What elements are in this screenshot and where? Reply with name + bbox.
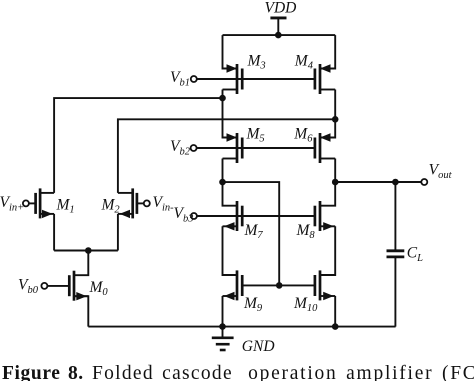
- transistor M8: [315, 201, 335, 231]
- svg-text:M9: M9: [243, 295, 263, 314]
- node CL junction: [392, 179, 399, 186]
- wire M5 drain to M7 drain: [223, 159, 238, 206]
- svg-text:M4: M4: [294, 53, 314, 72]
- wire M0 source to ground rail: [74, 296, 88, 326]
- svg-text:M5: M5: [246, 126, 265, 145]
- wire ground rail: [88, 326, 395, 328]
- wire Vb1 to M3 M4 gates: [197, 78, 315, 80]
- svg-text:Vb3: Vb3: [174, 205, 194, 225]
- transistor M2: [118, 188, 137, 218]
- svg-text:M10: M10: [293, 295, 318, 314]
- transistor M6: [315, 133, 335, 163]
- wire M1 source down: [53, 214, 55, 251]
- wire Vb2 to M5 M6 gates: [197, 147, 315, 149]
- wire Vout: [335, 181, 421, 183]
- svg-text:M2: M2: [101, 196, 121, 215]
- svg-text:GND: GND: [242, 338, 275, 355]
- svg-text:M1: M1: [56, 196, 75, 215]
- node gate link junction: [276, 282, 283, 289]
- wire M2 source down: [117, 214, 119, 251]
- svg-text:M8: M8: [296, 222, 316, 241]
- wire M9 source to ground rail: [222, 296, 224, 327]
- svg-text:M6: M6: [293, 126, 313, 145]
- wire Vb3 to M7 M8 gates: [197, 215, 315, 217]
- node VDD rail junction: [275, 32, 282, 39]
- wire M3 drain to M5 source: [223, 90, 238, 138]
- transistor M4: [315, 64, 335, 94]
- wire M4 drain to M6 source: [320, 90, 335, 138]
- wire B from M2 drain: [118, 119, 335, 193]
- transistor M5: [223, 133, 243, 163]
- wire right rail drop to M4 source: [320, 35, 335, 68]
- terminal Vin-: [144, 200, 150, 206]
- svg-text:M0: M0: [89, 279, 109, 298]
- svg-text:Vin-: Vin-: [153, 194, 175, 214]
- wire M7 source to M9 drain: [223, 226, 238, 275]
- transistor M0: [69, 271, 88, 301]
- svg-text:VDD: VDD: [265, 0, 297, 17]
- svg-text:Vin+: Vin+: [0, 194, 24, 214]
- wire tail to M0 drain: [74, 251, 88, 276]
- node rail right junction: [332, 323, 339, 330]
- terminal Vb3: [191, 213, 197, 219]
- wire M2 gate to Vin-: [137, 202, 144, 204]
- ground: [212, 327, 234, 350]
- svg-text:Vb0: Vb0: [18, 277, 39, 297]
- svg-text:M7: M7: [244, 222, 264, 241]
- wire Vin+ to M1 gate: [29, 202, 36, 204]
- node A left drain junction: [219, 95, 226, 102]
- node tail junction: [85, 247, 92, 254]
- wire M8 source to M10 drain: [320, 226, 335, 275]
- transistor M7: [223, 201, 243, 231]
- transistor M9: [223, 270, 243, 300]
- node B right drain junction: [332, 116, 339, 123]
- transistor M3: [223, 64, 243, 94]
- svg-text:M3: M3: [247, 53, 266, 72]
- node Vout junction: [332, 179, 339, 186]
- wire Vb0 to M0 gate: [47, 285, 69, 287]
- transistor M10: [315, 270, 335, 300]
- wire A from M1 drain: [54, 98, 222, 193]
- wire mirror node to M9 M10 gates: [223, 182, 280, 285]
- caption Figure 8: [2, 364, 474, 381]
- node rail left junction: [219, 323, 226, 330]
- wire left rail drop to M3 source: [223, 35, 238, 68]
- wire tail link: [54, 250, 118, 252]
- terminal Vin+: [23, 200, 29, 206]
- capacitor CL: [387, 182, 405, 327]
- terminal Vout: [421, 179, 427, 185]
- svg-text:Vout: Vout: [429, 162, 453, 182]
- wire top rail: [223, 34, 336, 36]
- svg-text:Vb1: Vb1: [170, 69, 190, 89]
- wire M6 drain to M8 drain: [320, 159, 335, 206]
- svg-text:Vb2: Vb2: [170, 138, 191, 158]
- wire M9 M10 gate link: [242, 284, 315, 286]
- transistor M1: [36, 188, 55, 218]
- node mirror junction: [219, 179, 226, 186]
- wire M10 source to ground rail: [334, 296, 336, 327]
- terminal Vb0: [41, 283, 47, 289]
- terminal Vb2: [191, 145, 197, 151]
- terminal Vb1: [191, 76, 197, 82]
- VDD power symbol: [270, 18, 286, 35]
- svg-text:CL: CL: [407, 245, 423, 265]
